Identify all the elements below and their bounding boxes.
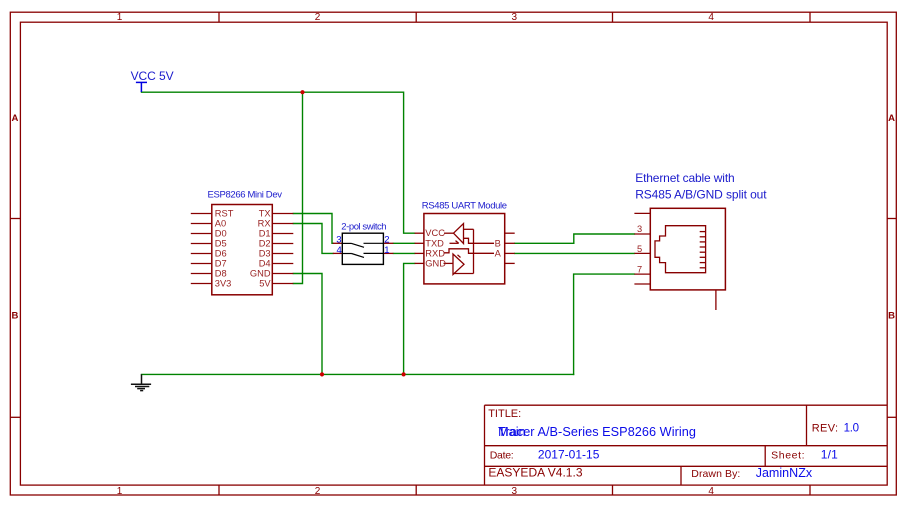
- svg-text:D4: D4: [259, 259, 271, 269]
- svg-text:D1: D1: [259, 229, 271, 239]
- svg-text:EASYEDA V4.1.3: EASYEDA V4.1.3: [488, 465, 582, 479]
- svg-text:1.0: 1.0: [844, 423, 859, 435]
- svg-text:TITLE:: TITLE:: [488, 408, 521, 420]
- svg-text:3V3: 3V3: [215, 279, 232, 289]
- svg-text:GND: GND: [425, 258, 446, 268]
- svg-text:3: 3: [336, 235, 341, 246]
- svg-text:2-pol switch: 2-pol switch: [341, 221, 386, 232]
- svg-text:Drawn By:: Drawn By:: [691, 468, 740, 480]
- svg-text:TXD: TXD: [425, 238, 444, 248]
- svg-text:B: B: [888, 310, 895, 321]
- svg-text:D5: D5: [215, 239, 227, 249]
- svg-text:2: 2: [384, 235, 389, 246]
- svg-text:ESP8266 Mini Dev: ESP8266 Mini Dev: [208, 190, 283, 201]
- svg-text:GND: GND: [250, 269, 271, 279]
- svg-text:D8: D8: [215, 269, 227, 279]
- svg-text:TX: TX: [259, 209, 271, 219]
- svg-text:2017-01-15: 2017-01-15: [538, 447, 600, 461]
- svg-text:1: 1: [117, 12, 123, 23]
- svg-text:RX: RX: [258, 219, 271, 229]
- svg-text:3: 3: [512, 486, 518, 497]
- svg-text:Sheet:: Sheet:: [771, 449, 805, 461]
- svg-text:Ethernet cable with: Ethernet cable with: [635, 171, 735, 185]
- svg-text:RS485 UART Module: RS485 UART Module: [422, 201, 507, 212]
- svg-text:A: A: [495, 248, 502, 258]
- svg-text:B: B: [495, 238, 501, 248]
- svg-text:RXD: RXD: [425, 248, 445, 258]
- svg-text:A: A: [11, 113, 18, 124]
- svg-text:2: 2: [315, 486, 321, 497]
- svg-text:D7: D7: [215, 259, 227, 269]
- svg-text:D6: D6: [215, 249, 227, 259]
- svg-text:B: B: [11, 310, 18, 321]
- svg-text:A0: A0: [215, 219, 226, 229]
- svg-text:1: 1: [117, 486, 123, 497]
- svg-text:4: 4: [337, 245, 342, 256]
- svg-text:4: 4: [708, 12, 714, 23]
- svg-text:1/1: 1/1: [821, 447, 838, 461]
- svg-text:Tracer A/B-Series ESP8266 Wiri: Tracer A/B-Series ESP8266 Wiring: [498, 425, 696, 439]
- svg-text:VCC 5V: VCC 5V: [131, 69, 174, 83]
- svg-text:RS485 A/B/GND split out: RS485 A/B/GND split out: [635, 187, 767, 201]
- svg-text:1: 1: [384, 245, 389, 256]
- svg-text:VCC: VCC: [425, 228, 445, 238]
- svg-text:7: 7: [637, 264, 642, 274]
- svg-text:5V: 5V: [259, 279, 271, 289]
- svg-text:D2: D2: [259, 239, 271, 249]
- svg-text:4: 4: [708, 486, 714, 497]
- svg-text:2: 2: [315, 12, 321, 23]
- svg-text:JaminNZx: JaminNZx: [756, 466, 813, 480]
- svg-text:D3: D3: [259, 249, 271, 259]
- svg-text:3: 3: [637, 224, 642, 234]
- svg-text:3: 3: [512, 12, 518, 23]
- svg-text:Date:: Date:: [490, 449, 514, 461]
- svg-text:5: 5: [637, 244, 642, 254]
- svg-text:A: A: [888, 113, 895, 124]
- svg-text:RST: RST: [215, 209, 234, 219]
- svg-text:REV:: REV:: [812, 423, 838, 435]
- svg-text:D0: D0: [215, 229, 227, 239]
